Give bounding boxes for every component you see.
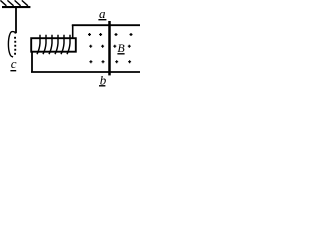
solenoid winding turns [37, 35, 70, 54]
string from ceiling [15, 8, 17, 33]
wire from coil right end up to top rail [72, 25, 74, 39]
top rail wire [72, 24, 140, 26]
fixed support hatch strokes [0, 0, 28, 5]
fixed support ceiling bar [2, 6, 30, 8]
label b underline [99, 85, 105, 87]
magnetic field dots (B out of page), row 1 [88, 33, 133, 36]
label B underline [117, 53, 124, 55]
svg-text:a: a [99, 6, 106, 21]
ring c (hanging loop, left arc solid) [8, 32, 15, 58]
conducting rod ab [108, 21, 111, 75]
svg-text:B: B [117, 41, 125, 55]
wire from coil left end down to bottom rail [31, 52, 33, 72]
label a underline [98, 19, 106, 21]
magnetic field dots, row 3 [89, 60, 131, 63]
bottom rail wire [31, 71, 140, 73]
magnetic field dots, row 2 [89, 45, 131, 48]
solenoid coil core box [31, 38, 76, 52]
svg-text:c: c [11, 56, 17, 71]
label c underline [10, 70, 16, 72]
ring c hidden edge dots [14, 37, 16, 55]
